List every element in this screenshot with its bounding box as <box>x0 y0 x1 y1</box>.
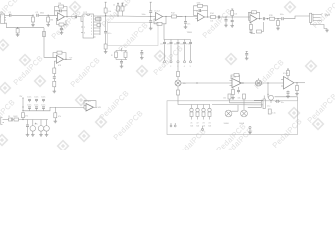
wire <box>216 16 248 18</box>
node N <box>242 82 243 83</box>
capacitor C29 <box>26 120 29 134</box>
node H <box>225 16 226 17</box>
ground <box>230 24 234 27</box>
svg-text:D1: D1 <box>8 116 10 118</box>
capacitor C33 <box>218 16 219 19</box>
resistor R10 <box>121 3 124 16</box>
pad 1 <box>163 61 165 63</box>
wire <box>275 18 282 20</box>
node A0 <box>32 15 33 16</box>
node P <box>296 82 297 83</box>
wire <box>240 82 244 84</box>
capacitor C18 <box>167 40 173 48</box>
resistor R18 <box>257 22 264 33</box>
svg-text:6: 6 <box>91 22 92 24</box>
node S <box>22 110 23 111</box>
wire <box>177 16 198 18</box>
svg-text:220n: 220n <box>180 44 184 46</box>
capacitor C27 <box>34 97 38 111</box>
input jack J1 <box>1 12 7 24</box>
svg-text:1: 1 <box>164 66 165 68</box>
svg-text:10k: 10k <box>223 97 226 99</box>
pad 9 <box>174 123 176 127</box>
wire <box>212 103 254 111</box>
wire <box>22 98 84 111</box>
capacitor C24 <box>267 94 274 108</box>
node B <box>17 27 18 28</box>
resistor R26 <box>124 52 127 58</box>
stereo jack J3 <box>254 96 265 109</box>
resistor R28 <box>177 90 180 102</box>
op-amp IC2.1 <box>196 11 205 21</box>
resistor R35 <box>268 109 276 114</box>
capacitor C12 <box>250 30 256 34</box>
pad 8 <box>170 123 172 127</box>
resistor R33 <box>223 94 231 103</box>
capacitor C13 <box>53 74 56 82</box>
resistor R3 <box>47 15 54 23</box>
capacitor C26 <box>27 97 31 111</box>
capacitor C25 <box>275 100 284 104</box>
op-amp IC3.2 <box>84 101 94 111</box>
ground <box>16 33 20 36</box>
capacitor C2 <box>36 12 44 17</box>
svg-text:IC4.1: IC4.1 <box>231 77 237 79</box>
op-amp IC3.1 <box>55 55 64 67</box>
capacitor C4 <box>73 13 77 18</box>
resistor R17 <box>250 23 253 30</box>
node L <box>277 18 278 19</box>
resistor R14 <box>210 13 216 22</box>
op-amp IC2.2 <box>248 13 258 23</box>
ground <box>53 90 57 93</box>
wire <box>165 48 191 61</box>
label box <box>96 16 102 21</box>
svg-text:47u: 47u <box>108 33 111 35</box>
svg-text:100n: 100n <box>41 97 45 99</box>
wire <box>84 101 97 109</box>
svg-text:680k: 680k <box>40 13 44 15</box>
ground <box>46 23 50 26</box>
wire <box>275 97 298 101</box>
clipping section box <box>108 23 159 46</box>
trimmer TR2 <box>196 105 200 128</box>
node A <box>48 15 49 16</box>
resistor R20 <box>43 32 46 37</box>
svg-text:4: 4 <box>184 66 185 68</box>
svg-text:10k: 10k <box>238 97 241 99</box>
svg-text:7: 7 <box>91 19 92 21</box>
svg-text:3: 3 <box>84 33 85 35</box>
capacitor C15 <box>140 51 143 57</box>
capacitor C35 <box>104 16 111 44</box>
resistor R7 <box>104 44 107 50</box>
svg-text:47k: 47k <box>58 116 61 118</box>
pad 3 <box>177 61 179 63</box>
resistor R32 <box>296 83 299 92</box>
svg-text:1M: 1M <box>50 20 53 22</box>
svg-text:1.5u: 1.5u <box>267 105 271 107</box>
pad 10 <box>249 126 251 130</box>
svg-text:50k: 50k <box>190 125 193 127</box>
svg-text:100kB: 100kB <box>239 123 245 125</box>
resistor R25 <box>111 52 118 58</box>
wire <box>163 16 172 18</box>
resistor R24 <box>53 81 56 89</box>
wire <box>178 101 210 105</box>
svg-text:10k: 10k <box>66 24 69 26</box>
svg-text:470n: 470n <box>186 44 190 46</box>
potentiometer VR2 <box>256 78 262 86</box>
ground <box>31 23 35 26</box>
svg-text:10k: 10k <box>108 11 111 13</box>
svg-text:100n: 100n <box>174 44 178 46</box>
node C <box>66 16 67 17</box>
svg-text:4.7u: 4.7u <box>73 13 77 15</box>
svg-text:10u: 10u <box>281 102 284 104</box>
pad 4 <box>183 61 185 63</box>
resistor R31 <box>287 69 290 80</box>
svg-text:22n: 22n <box>160 44 163 46</box>
pad 5 <box>189 61 191 63</box>
op-amp IC4.2 <box>281 73 294 89</box>
svg-text:100n: 100n <box>280 14 284 16</box>
node D <box>105 15 106 16</box>
resistor R23 <box>53 68 56 74</box>
resistor R1 <box>32 15 35 23</box>
node D2 <box>150 16 151 17</box>
wire <box>267 83 269 98</box>
ground <box>248 131 252 134</box>
node J <box>259 18 260 19</box>
trimmer TR4 <box>208 105 212 128</box>
svg-text:5: 5 <box>91 25 92 27</box>
node M <box>196 82 197 83</box>
op-amp IC4.1 <box>230 77 242 88</box>
capacitor C30 <box>30 120 36 134</box>
ground <box>286 95 290 98</box>
output jack J2 <box>310 13 331 22</box>
divider column <box>142 2 153 26</box>
potentiometer VR3 <box>224 110 232 125</box>
op-amp IC1.2 <box>151 11 163 21</box>
wire <box>96 16 101 35</box>
svg-text:IC2.1: IC2.1 <box>197 11 203 13</box>
svg-text:47n: 47n <box>167 44 170 46</box>
svg-text:IC1.2: IC1.2 <box>155 11 161 13</box>
wire <box>116 48 127 60</box>
wire <box>205 16 211 18</box>
capacitor C19 <box>174 40 180 48</box>
op-amp U1.A <box>56 11 65 21</box>
power flags <box>117 3 124 6</box>
node R <box>22 106 23 107</box>
capacitor C6 <box>184 16 190 25</box>
wire <box>311 23 328 29</box>
trimmer TR1 <box>190 105 194 128</box>
resistor R21 <box>277 19 280 27</box>
capacitor C32 <box>44 120 50 134</box>
wire <box>65 16 76 18</box>
diode D1 <box>4 116 13 121</box>
resistor R4 <box>59 3 64 8</box>
ground <box>245 57 249 60</box>
svg-text:IC3.2: IC3.2 <box>86 101 92 103</box>
capacitor C10 <box>263 17 264 20</box>
ground <box>140 56 144 59</box>
node K <box>267 18 268 19</box>
capacitor C31 <box>38 120 44 134</box>
svg-text:5: 5 <box>190 66 191 68</box>
ground <box>276 27 280 30</box>
svg-text:100n: 100n <box>41 104 45 106</box>
node O <box>267 82 268 83</box>
capacitor C21 <box>186 40 192 48</box>
wire <box>7 14 10 16</box>
capacitor C1 <box>9 12 12 17</box>
wire <box>265 18 269 20</box>
wire <box>284 16 310 19</box>
svg-text:100n: 100n <box>27 97 31 99</box>
resistor R27 <box>177 72 180 80</box>
wire <box>249 12 260 20</box>
capacitor C11 <box>280 14 284 20</box>
ground <box>231 96 235 99</box>
resistor R5 <box>57 18 67 26</box>
svg-text:47k: 47k <box>25 115 28 117</box>
svg-text:100n: 100n <box>142 14 146 16</box>
ground <box>325 29 329 32</box>
svg-text:10k: 10k <box>210 20 213 22</box>
svg-text:8: 8 <box>91 16 92 18</box>
svg-text:OUT: OUT <box>325 15 330 17</box>
capacitor C17 <box>160 40 166 48</box>
ground <box>149 27 153 30</box>
wire <box>55 7 68 17</box>
svg-text:100n: 100n <box>34 104 38 106</box>
potentiometer VR4 <box>239 110 247 125</box>
ground <box>295 92 299 95</box>
IC U2 <box>81 12 96 38</box>
svg-text:10k: 10k <box>125 4 128 6</box>
svg-text:TREB: TREB <box>187 32 193 34</box>
resistor R15 <box>231 9 238 17</box>
resistor R30 <box>232 87 235 96</box>
capacitor C16 <box>245 52 248 57</box>
wire <box>53 53 66 60</box>
node VT <box>65 58 73 60</box>
wire <box>5 23 45 28</box>
wire <box>116 15 148 17</box>
ground <box>104 50 108 53</box>
wire <box>194 6 208 17</box>
svg-text:100kB: 100kB <box>224 123 230 125</box>
node I <box>232 16 233 17</box>
potentiometer VR1 <box>175 80 186 90</box>
resistor R16 <box>252 11 257 14</box>
wire <box>164 24 191 40</box>
resistor R8 <box>104 2 111 15</box>
svg-text:1.5k: 1.5k <box>272 112 275 114</box>
svg-text:3: 3 <box>91 31 92 33</box>
wire <box>177 16 183 18</box>
svg-text:50k: 50k <box>208 125 211 127</box>
resistor R12 <box>171 13 177 18</box>
svg-text:2: 2 <box>170 66 171 68</box>
svg-text:4: 4 <box>91 28 92 30</box>
footswitch board box <box>167 101 298 135</box>
resistor R19 <box>269 15 275 20</box>
ground <box>120 65 124 68</box>
svg-text:100n: 100n <box>34 97 38 99</box>
svg-text:50k: 50k <box>196 125 199 127</box>
wire <box>39 14 56 16</box>
resistor R9 <box>117 3 120 16</box>
svg-text:100n: 100n <box>27 104 31 106</box>
wire bus VB <box>181 82 284 84</box>
pad 2 <box>170 61 172 63</box>
svg-text:22n: 22n <box>187 23 190 25</box>
svg-text:1: 1 <box>84 16 85 18</box>
wire <box>257 18 262 20</box>
power jack J4 <box>1 118 4 125</box>
node Q <box>22 119 23 120</box>
ground <box>224 24 228 27</box>
trimmer TR3 <box>202 105 206 128</box>
svg-text:47u: 47u <box>35 124 38 126</box>
capacitor C22 <box>237 87 240 94</box>
resistor R40 <box>154 17 166 26</box>
capacitor C23 <box>287 91 290 95</box>
svg-text:10k: 10k <box>234 13 237 15</box>
capacitor C14 <box>120 60 123 65</box>
resistor R6 <box>96 24 101 27</box>
wire <box>294 82 305 84</box>
capacitor C28 <box>41 97 45 111</box>
node G <box>207 16 208 17</box>
wire <box>177 63 179 72</box>
svg-text:100R: 100R <box>13 116 18 118</box>
svg-text:IC4.2: IC4.2 <box>283 73 289 75</box>
resistor R29 <box>231 74 240 84</box>
wire <box>100 15 116 17</box>
wire <box>53 61 56 68</box>
resistor R2 <box>16 28 19 33</box>
svg-text:2: 2 <box>84 27 85 29</box>
capacitor C3 <box>60 26 63 31</box>
ground <box>26 133 30 136</box>
wire <box>12 14 34 16</box>
ground <box>45 133 49 136</box>
resistor R34 <box>238 94 246 110</box>
ground <box>54 120 58 123</box>
svg-text:100k: 100k <box>197 3 201 5</box>
ground <box>31 133 35 136</box>
capacitor C8 <box>225 17 228 24</box>
capacitor C36 <box>55 9 68 12</box>
wire <box>66 58 72 60</box>
node F <box>165 16 166 17</box>
ground <box>184 25 188 28</box>
capacitor C7 <box>194 9 208 12</box>
capacitor C20 <box>180 40 186 48</box>
svg-text:1k: 1k <box>113 4 115 6</box>
wire <box>77 17 83 22</box>
ground <box>39 133 43 136</box>
wire <box>44 28 56 58</box>
capacitor C9 <box>231 17 234 24</box>
pad numbers <box>164 66 191 68</box>
svg-text:2: 2 <box>91 34 92 36</box>
ground <box>60 31 64 34</box>
resistor R38 <box>54 107 61 119</box>
resistor R13 <box>197 3 203 8</box>
pad 7 <box>201 126 203 131</box>
node E <box>117 15 118 16</box>
resistor R22 <box>57 51 62 54</box>
resistor R36 <box>13 116 49 121</box>
resistor R37 <box>22 113 28 120</box>
